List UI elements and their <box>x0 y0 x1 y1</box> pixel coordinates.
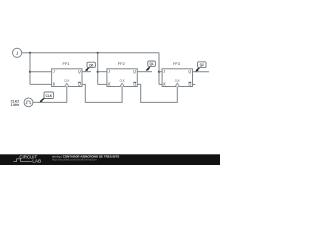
svg-text:Q: Q <box>78 83 81 87</box>
svg-text:Q: Q <box>133 83 136 87</box>
svg-text:CLK: CLK <box>64 79 69 83</box>
JK flip-flop FF1 <box>52 69 82 87</box>
wire: FF3 Q stub (node Q2 out) <box>193 71 210 73</box>
svg-text:CLK: CLK <box>120 79 125 83</box>
svg-text:CLK: CLK <box>175 79 180 83</box>
svg-text:Q1: Q1 <box>149 62 153 66</box>
svg-text:Q0: Q0 <box>89 63 93 67</box>
wire: FF1 Q stub <box>82 71 91 73</box>
svg-text:FF2: FF2 <box>118 61 125 66</box>
svg-text:FF3: FF3 <box>173 61 180 66</box>
junction at FF1 J branch <box>29 71 31 73</box>
svg-text:FF1: FF1 <box>63 61 70 66</box>
svg-text:1 kHz: 1 kHz <box>11 103 20 107</box>
wire: FF3 Qbar stub <box>193 83 196 85</box>
wire: to FF1 K <box>30 83 52 85</box>
logic-high source V1 (constant 1) <box>13 48 22 57</box>
wire: to FF1 J <box>30 71 52 73</box>
svg-text:LAB: LAB <box>32 159 41 164</box>
svg-text:K: K <box>162 83 166 87</box>
CircuitLab logo <box>13 155 41 164</box>
wire: source to top rail <box>22 52 30 54</box>
svg-text:Q: Q <box>78 70 81 74</box>
svg-text:K: K <box>107 83 111 87</box>
wire: FF1 feed vertical x=30 <box>29 53 31 85</box>
wire: to FF3 J <box>159 71 162 73</box>
wire: FF2 Q stub <box>137 71 152 73</box>
svg-text:K: K <box>52 83 56 87</box>
svg-text:CLK: CLK <box>46 94 53 98</box>
wire: clock source to FF1 clock <box>33 87 67 103</box>
svg-text:http://circuitlab.com/c6zq47p4: http://circuitlab.com/c6zq47p4zpk3ym <box>52 158 98 162</box>
junction at FF3 J branch <box>158 71 160 73</box>
JK flip-flop FF2 <box>107 69 137 87</box>
clock source CLK2 1 kHz <box>24 98 33 107</box>
svg-text:1: 1 <box>16 51 19 57</box>
svg-text:Q2: Q2 <box>200 63 204 67</box>
wire: FF2 feed vertical x=97.7 <box>97 53 99 85</box>
net flag Q0 <box>85 62 96 71</box>
wire: FF3 feed vertical x=159 <box>158 53 160 85</box>
svg-text:Q: Q <box>133 70 136 74</box>
watermark bar <box>0 154 220 165</box>
wire: FF2 Qbar to FF3 clock <box>137 84 177 102</box>
svg-text:Q: Q <box>189 83 192 87</box>
wire: top rail y=52.8 <box>30 52 159 54</box>
svg-text:Q: Q <box>188 70 191 74</box>
junction at rail/FF2 feed <box>97 52 99 54</box>
net flag Q2 <box>195 62 206 72</box>
net flag CLK <box>39 92 53 102</box>
JK flip-flop FF3 <box>162 69 192 87</box>
wire: to FF2 K <box>98 83 107 85</box>
net flag Q1 <box>146 61 156 71</box>
wire: to FF3 K <box>159 83 162 85</box>
junction at rail/FF1 feed <box>29 52 31 54</box>
junction at FF2 J branch <box>97 71 99 73</box>
wire: FF1 Qbar to FF2 clock <box>82 84 122 102</box>
wire: to FF2 J <box>98 71 107 73</box>
